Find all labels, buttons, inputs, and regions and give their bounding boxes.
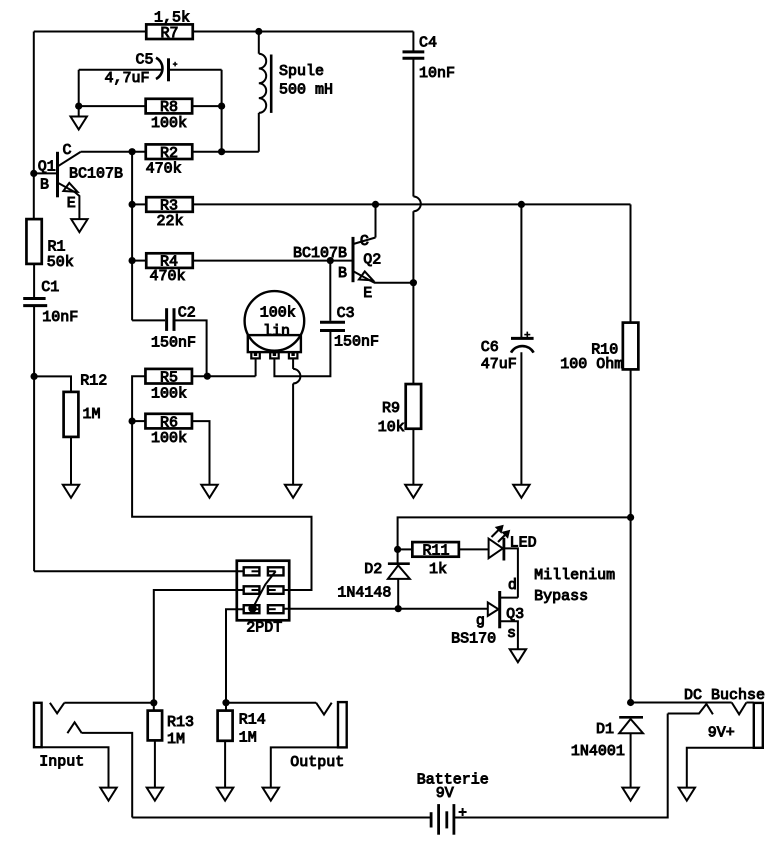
value 500 mH — [279, 82, 333, 99]
svg-text:R7: R7 — [161, 25, 179, 42]
node C5/R8 left junction — [75, 103, 82, 110]
value 100k (pot) — [260, 304, 296, 321]
capacitor C6 — [511, 204, 534, 484]
battery Batterie 9V — [431, 804, 454, 835]
node input tip junction — [150, 699, 157, 706]
label Q3 — [506, 606, 524, 623]
value BS170 — [451, 631, 496, 648]
svg-text:47uF: 47uF — [481, 356, 517, 373]
node output tip junction — [222, 699, 229, 706]
wire switch bot-right to Q3 gate — [284, 608, 489, 610]
polarity + (C5) — [173, 62, 178, 67]
svg-text:1M: 1M — [239, 729, 257, 746]
svg-text:LED: LED — [510, 534, 537, 551]
resistor R9 — [406, 384, 421, 429]
ground (Q3) — [510, 649, 526, 662]
value 9V (battery) — [436, 785, 454, 802]
wire R6 right to ground — [192, 421, 210, 485]
svg-text:100k: 100k — [260, 304, 296, 321]
svg-text:50k: 50k — [47, 254, 74, 271]
LED arrows — [492, 526, 510, 542]
wire R1 to C1 — [33, 264, 35, 297]
svg-text:R13: R13 — [167, 714, 194, 731]
wire output sleeve to ground — [271, 747, 338, 787]
label D1 — [596, 721, 614, 738]
wire top rail from left line to C4 — [34, 31, 414, 33]
label D2 — [364, 561, 382, 578]
svg-text:C: C — [63, 142, 72, 159]
svg-text:470k: 470k — [146, 161, 182, 178]
wire C5 to R8 left column — [78, 70, 80, 117]
value 1N4001 — [571, 743, 625, 760]
svg-text:9V+: 9V+ — [708, 724, 735, 741]
svg-text:g: g — [476, 613, 485, 630]
pin B (Q1) — [40, 177, 49, 194]
svg-text:R11: R11 — [423, 543, 450, 560]
resistor R13 — [148, 711, 162, 741]
wire R4 left — [132, 260, 146, 262]
inductor Spule 500mH — [259, 32, 271, 152]
wire switch mid-left to input jack column — [154, 590, 244, 711]
svg-text:BC107B: BC107B — [69, 166, 123, 183]
wire pot wiper to C3 — [274, 332, 330, 376]
value 470k (R2) — [146, 161, 182, 178]
wire R2 right to Spule — [192, 151, 258, 153]
node R10 / millenium junction — [627, 514, 634, 521]
label R14 — [239, 712, 266, 729]
wire R11 to LED — [459, 548, 489, 550]
wire millenium feed — [398, 517, 631, 563]
svg-text:s: s — [507, 625, 516, 642]
label C4 — [419, 35, 437, 52]
transistor Q3 (BS170) — [488, 591, 518, 649]
svg-text:100k: 100k — [151, 115, 187, 132]
switch 2PDT — [237, 561, 289, 621]
node Q2 collector junction — [372, 201, 379, 208]
label Q1 — [38, 158, 56, 175]
node R2 right junction — [218, 148, 225, 155]
wire R5 right — [192, 375, 256, 377]
value 100 Ohm — [560, 356, 623, 373]
svg-text:100 Ohm: 100 Ohm — [560, 356, 623, 373]
wire R9 to ground — [412, 429, 414, 485]
ground (pot) — [285, 485, 301, 498]
svg-text:C: C — [360, 233, 369, 250]
value 100k (R6) — [151, 430, 187, 447]
pin s (Q3) — [507, 625, 516, 642]
svg-text:150nF: 150nF — [151, 334, 196, 351]
wire R8 right — [192, 105, 222, 107]
node Q1 collector / bus top — [129, 148, 136, 155]
svg-text:R12: R12 — [80, 373, 107, 390]
svg-text:470k: 470k — [150, 268, 186, 285]
node R12 junction — [30, 373, 37, 380]
svg-text:R8: R8 — [160, 99, 178, 116]
value 10k — [378, 419, 405, 436]
svg-text:1M: 1M — [167, 731, 185, 748]
wire hop (C4 column crosses R3 row) — [413, 197, 420, 212]
svg-text:500 mH: 500 mH — [279, 82, 333, 99]
wire pot right terminal with hop — [293, 358, 300, 484]
value 100k (R8) — [151, 115, 187, 132]
svg-text:E: E — [363, 285, 372, 302]
label Q2 — [363, 251, 381, 268]
resistor R5 — [145, 369, 192, 387]
resistor R2 — [146, 144, 193, 162]
ground (C6) — [513, 485, 529, 498]
wire 9V rail to DC jack — [631, 702, 732, 704]
wire R12 branch — [34, 376, 71, 392]
wire input ring to battery bus — [82, 733, 132, 818]
node R6 left junction — [129, 418, 136, 425]
value 1M (R13) — [167, 731, 185, 748]
svg-text:1N4148: 1N4148 — [337, 585, 391, 602]
wire C5 left branch — [79, 69, 163, 71]
label Spule — [279, 63, 324, 80]
svg-text:lin: lin — [263, 323, 290, 340]
label R9 — [382, 400, 400, 417]
svg-text:Bypass: Bypass — [534, 588, 588, 605]
value 4,7uF — [105, 70, 150, 87]
svg-text:BS170: BS170 — [451, 631, 496, 648]
pin C (Q2) — [360, 233, 369, 250]
label R13 — [167, 714, 194, 731]
value 100k (R5) — [151, 385, 187, 402]
value 470k (R4) — [150, 268, 186, 285]
polarity + (battery) — [459, 808, 467, 816]
ground (R12) — [63, 485, 79, 498]
diode LED — [489, 538, 518, 598]
svg-text:10nF: 10nF — [42, 309, 78, 326]
svg-text:B: B — [40, 177, 49, 194]
wire input sleeve to ground — [42, 747, 109, 787]
value 50k — [47, 254, 74, 271]
value 1,5k (R7) — [154, 10, 190, 27]
svg-text:1,5k: 1,5k — [154, 10, 190, 27]
resistor R10 — [623, 323, 639, 370]
svg-text:C3: C3 — [337, 305, 355, 322]
value 1k — [429, 561, 447, 578]
label Millenium — [534, 567, 615, 584]
capacitor C5 — [156, 58, 222, 82]
jack DC Buchse — [668, 703, 763, 748]
value 150nF (C2) — [151, 334, 196, 351]
svg-text:100k: 100k — [151, 385, 187, 402]
svg-text:R2: R2 — [160, 145, 178, 162]
wire C2 left — [132, 319, 165, 321]
svg-text:2PDT: 2PDT — [246, 620, 282, 637]
resistor R8 — [146, 99, 193, 116]
node Q2 base / C3 junction — [327, 257, 334, 264]
svg-text:D2: D2 — [364, 561, 382, 578]
label BC107B (Q1) — [69, 166, 123, 183]
label R12 — [80, 373, 107, 390]
wire R6 left — [132, 420, 146, 422]
resistor R7 — [146, 24, 193, 41]
value 9V+ — [708, 724, 735, 741]
wire DC sleeve to ground — [687, 748, 754, 788]
svg-text:100k: 100k — [151, 430, 187, 447]
value 1M (R12) — [83, 406, 101, 423]
resistor R6 — [145, 414, 192, 432]
wire C4 column to R9 — [412, 211, 414, 384]
pin E (Q1) — [67, 195, 76, 212]
svg-text:D1: D1 — [596, 721, 614, 738]
svg-text:DC Buchse: DC Buchse — [684, 687, 765, 704]
wire left input line (top) — [33, 32, 35, 220]
node R5 / C2 junction — [204, 373, 211, 380]
wire R5 left / lower bus — [132, 376, 311, 590]
jack Output — [226, 702, 347, 747]
svg-text:R14: R14 — [239, 712, 266, 729]
svg-text:Q2: Q2 — [363, 251, 381, 268]
pin B (Q2) — [338, 265, 347, 282]
pin g (Q3) — [476, 613, 485, 630]
polarity + (C6) — [524, 332, 530, 338]
node Q1 base junction — [30, 170, 37, 177]
node R4 left junction — [129, 257, 136, 264]
ground (output jack) — [263, 788, 279, 801]
label Bypass — [534, 588, 588, 605]
capacitor C2 — [167, 308, 207, 376]
diode D1 — [619, 717, 643, 787]
pin d (Q3) — [508, 577, 517, 594]
svg-text:Q3: Q3 — [506, 606, 524, 623]
svg-text:22k: 22k — [157, 213, 184, 230]
svg-text:Input: Input — [39, 753, 84, 770]
value 150nF (C3) — [334, 333, 379, 350]
ground (R14) — [217, 788, 233, 801]
wire R3 row to R10 corner — [193, 204, 631, 322]
label LED — [510, 534, 537, 551]
value 22k — [157, 213, 184, 230]
potentiometer 100k lin — [245, 291, 305, 358]
label R1 — [48, 238, 66, 255]
label C3 — [337, 305, 355, 322]
svg-text:R9: R9 — [382, 400, 400, 417]
node C6 top junction — [518, 201, 525, 208]
value 10nF (C4) — [419, 65, 455, 82]
label C1 — [41, 279, 59, 296]
svg-text:R5: R5 — [160, 369, 178, 386]
capacitor C4 — [403, 32, 425, 197]
svg-text:C2: C2 — [178, 304, 196, 321]
wire R4 to Q2 base — [193, 260, 352, 262]
ground (R13) — [147, 788, 163, 801]
wire switch bot-left to output column — [226, 609, 244, 710]
value 1M (R14) — [239, 729, 257, 746]
resistor R14 — [218, 711, 233, 741]
label Input — [39, 753, 84, 770]
capacitor C1 — [23, 299, 47, 572]
svg-text:d: d — [508, 577, 517, 594]
pin E (Q2) — [363, 285, 372, 302]
value 1N4148 — [337, 585, 391, 602]
svg-text:10nF: 10nF — [419, 65, 455, 82]
node R11/D2 junction — [394, 546, 401, 553]
node D1 junction — [627, 699, 634, 706]
ground (DC jack) — [679, 788, 695, 801]
label C6 — [481, 339, 499, 356]
jack Input — [34, 703, 154, 747]
svg-text:C1: C1 — [41, 279, 59, 296]
resistor R3 — [146, 197, 193, 214]
wire pot left terminal — [255, 358, 257, 376]
pin C (Q1) — [63, 142, 72, 159]
label C5 — [136, 52, 154, 69]
ground (input jack) — [100, 788, 116, 801]
wire input line to switch top-left — [34, 570, 244, 572]
svg-text:4,7uF: 4,7uF — [105, 70, 150, 87]
node R3 left junction — [129, 201, 136, 208]
wire R11 left — [398, 548, 413, 550]
node D2 / gate junction — [395, 605, 402, 612]
capacitor C3 — [320, 261, 345, 331]
svg-text:1k: 1k — [429, 561, 447, 578]
wire battery bus left — [132, 817, 431, 819]
label Batterie — [417, 771, 489, 788]
svg-text:C5: C5 — [136, 52, 154, 69]
wire R12 to ground — [70, 437, 72, 485]
svg-text:9V: 9V — [436, 785, 454, 802]
svg-text:150nF: 150nF — [334, 333, 379, 350]
svg-text:E: E — [67, 195, 76, 212]
ground (R9) — [405, 485, 421, 498]
value 10nF (C1) — [42, 309, 78, 326]
ground (D1) — [622, 788, 638, 801]
node R8 right junction — [218, 103, 225, 110]
svg-text:R6: R6 — [160, 414, 178, 431]
label BC107B (Q2) — [293, 245, 347, 262]
svg-text:BC107B: BC107B — [293, 245, 347, 262]
label DC Buchse — [684, 687, 765, 704]
transistor Q1 — [34, 152, 81, 219]
ground (Q1 emitter) — [71, 219, 87, 232]
label C2 — [178, 304, 196, 321]
node junction top rail / Spule — [255, 28, 262, 35]
svg-text:1N4001: 1N4001 — [571, 743, 625, 760]
svg-text:R1: R1 — [48, 238, 66, 255]
svg-text:Millenium: Millenium — [534, 567, 615, 584]
wire R14 to ground — [224, 741, 226, 788]
svg-text:Output: Output — [290, 754, 344, 771]
wire R10 to D1 junction — [630, 369, 632, 702]
wire battery bus right — [454, 714, 668, 818]
wire C5-R8 right column — [221, 70, 223, 152]
svg-text:C6: C6 — [481, 339, 499, 356]
label R10 — [591, 342, 618, 359]
svg-text:10k: 10k — [378, 419, 405, 436]
diode D2 — [388, 564, 410, 609]
wire Q1 collector row — [81, 151, 146, 153]
resistor R12 — [64, 392, 79, 437]
wire R13 to ground — [154, 740, 156, 787]
svg-text:Spule: Spule — [279, 63, 324, 80]
value 47uF — [481, 356, 517, 373]
ground (R6) — [201, 485, 217, 498]
wire R8 left — [79, 105, 146, 107]
svg-text:C4: C4 — [419, 35, 437, 52]
label 2PDT — [246, 620, 282, 637]
resistor R4 — [146, 253, 193, 270]
node Q2 emitter junction — [410, 279, 417, 286]
wire R3 left — [132, 203, 146, 205]
svg-text:1M: 1M — [83, 406, 101, 423]
svg-text:Q1: Q1 — [38, 158, 56, 175]
resistor R1 — [26, 219, 41, 264]
transistor Q2 — [353, 204, 413, 282]
resistor R11 — [412, 542, 459, 560]
svg-text:B: B — [338, 265, 347, 282]
label lin (pot) — [263, 323, 290, 340]
wire left feedback bus — [131, 152, 133, 321]
label Output — [290, 754, 344, 771]
ground (C5/R8) — [71, 117, 87, 130]
